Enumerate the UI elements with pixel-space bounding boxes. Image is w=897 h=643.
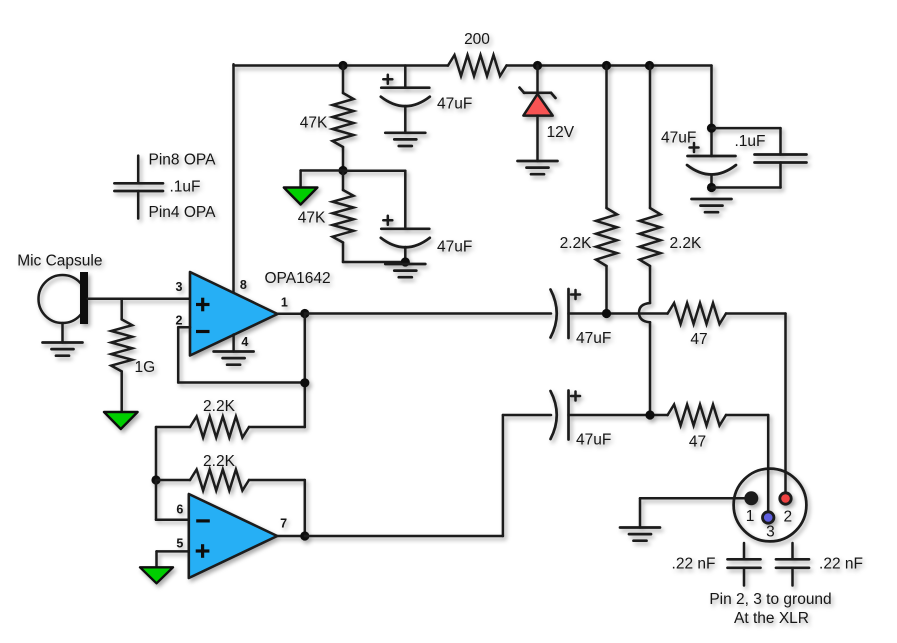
svg-text:47K: 47K [300,115,328,132]
wire 47K R-lower bottom lead [343,243,405,263]
capacitor 47uF C2 [381,216,430,247]
resistor 47 upper [668,303,726,324]
wire U1 output to coupling cap [305,312,551,315]
svg-text:Pin4 OPA: Pin4 OPA [149,204,217,221]
resistor 1G [111,319,132,371]
svg-text:.22 nF: .22 nF [819,556,863,573]
wire mic capsule ground stem [61,323,64,343]
svg-text:Pin8 OPA: Pin8 OPA [149,152,217,169]
XLR connector body [734,469,807,542]
wire C3 bottom lead [710,175,713,188]
capacitor 47uF C4 coupling [551,289,581,338]
zener diode 12V [520,88,556,116]
svg-text:2: 2 [783,508,792,525]
XLR pin 2 [780,493,791,504]
wire 2.2K left bottom lead [605,266,608,314]
svg-text:.22 nF: .22 nF [672,556,716,573]
wire U1 output vertical [304,314,307,428]
wire U2 output to coupling cap [305,415,551,536]
wire 1G bottom lead [120,371,123,411]
wire hop over signal wire [639,303,650,322]
ground 47uF C1 [385,133,425,146]
capacitor .22nF left [728,543,761,586]
svg-text:At the XLR: At the XLR [734,610,809,627]
node U1 feedback junction [300,378,309,387]
resistor 47K upper [333,93,354,147]
wire 1G top lead [120,299,123,320]
svg-text:47: 47 [690,331,707,348]
node C3 top [707,124,716,133]
wire bias cap bottom lead [404,247,407,262]
wire .1uF branch bottom [712,163,781,188]
capacitor 47uF C1 [381,75,430,107]
wire 47uF C1 bottom lead [404,106,407,133]
svg-text:2.2K: 2.2K [203,453,236,470]
mic capsule [39,272,89,324]
ground arrow 1G [104,412,138,429]
wire U1 feedback [178,327,305,382]
node rail-47K junction [338,61,347,70]
wire XLR pin1 to ground [640,498,751,527]
wire bias midpoint to green ground [301,171,343,188]
resistor 2.2K right vertical [640,208,661,266]
svg-text:2.2K: 2.2K [670,235,703,252]
wire top supply rail right segment [507,64,712,67]
wire U2 output [277,535,305,538]
svg-text:.1uF: .1uF [170,179,201,196]
node bias midpoint [338,166,347,175]
wire op-amp U1 pin 4 to ground [232,335,235,352]
wire 2.2K right bottom lead lower [649,322,652,415]
resistor 2.2K feedback upper [190,417,249,438]
ground arrow U2 pin 5 [140,567,173,583]
svg-text:47uF: 47uF [661,130,696,147]
wire 2.2K right bottom lead upper [649,266,652,303]
svg-text:5: 5 [176,537,183,551]
ground zener [518,161,558,174]
svg-text:47uF: 47uF [576,432,611,449]
wire 47K R-upper bottom lead [342,147,345,171]
wire .1uF branch top [712,128,781,154]
wire zener anode lead [536,116,539,161]
resistor 47K lower [333,190,354,243]
svg-text:1: 1 [281,296,288,310]
op-amp U1 OPA1642 first half [190,272,278,356]
node bias cap bottom [401,257,410,266]
wire op-amp U1 pin 8 supply riser [232,64,235,293]
svg-text:1: 1 [746,508,755,525]
ground mic capsule [43,343,83,356]
wire row2 cap to node [569,414,668,417]
node rail junction B [645,61,654,70]
svg-text:1G: 1G [135,359,156,376]
resistor 2.2K feedback lower [190,470,249,491]
ground 47uF C2 [385,264,425,277]
wire row1 cap to node [569,312,668,315]
svg-text:12V: 12V [547,124,575,141]
resistor 200 [448,55,507,76]
XLR pin 3 [763,512,774,523]
node C3 bottom [707,183,716,192]
ground arrow bias midpoint [284,188,318,205]
ground op-amp U1 [214,352,254,365]
capacitor .1uF bypass [755,155,807,163]
wire 2.2K fb upper leads [156,426,305,429]
wire top supply rail left segment [234,64,449,67]
svg-text:3: 3 [766,523,775,540]
node row1 junction [602,309,611,318]
svg-text:47uF: 47uF [576,330,611,347]
svg-text:2: 2 [176,314,183,328]
node rail-zener junction [533,61,542,70]
op-amp U2 OPA1642 second half [189,494,277,578]
wire op-amp U1 pin 2 stub [178,326,190,329]
svg-text:200: 200 [464,31,490,48]
svg-text:6: 6 [176,503,183,517]
wire U2 pin 5 lead [157,551,189,567]
wire rail right corner to C3 [710,66,713,157]
wire fb lower to U2 output [304,480,307,536]
svg-text:47uF: 47uF [437,96,472,113]
capacitor .1uF supply note [114,156,163,219]
resistor 47 lower [668,405,726,426]
node U2 output [300,531,309,540]
svg-text:2.2K: 2.2K [203,398,236,415]
resistor 2.2K left vertical [596,208,617,266]
wire 2.2K fb lower leads [156,479,305,482]
svg-text:47uF: 47uF [437,239,472,256]
XLR pin 1 [744,491,758,505]
wire 47 lower right lead [726,415,768,517]
wire zener cathode lead [536,66,539,94]
svg-text:OPA1642: OPA1642 [265,270,331,287]
svg-text:7: 7 [280,517,287,531]
wire 2.2K right top lead [649,66,652,209]
wire 47K R-lower top lead [342,171,345,191]
capacitor .22nF right [776,543,809,586]
ground XLR pin1 [620,528,660,541]
wire fb left vertical [155,427,158,480]
svg-text:Pin 2, 3 to ground: Pin 2, 3 to ground [709,591,831,608]
svg-text:3: 3 [176,280,183,294]
wire U2 pin 6 lead [156,480,189,520]
svg-text:8: 8 [240,278,247,292]
wire U1 output [278,313,305,316]
wire mic to op-amp input [88,298,190,301]
wire bias cap top lead [343,171,405,229]
wire 47 upper right lead [726,314,786,499]
ground C3 [692,199,732,212]
node fb left junction [151,475,160,484]
svg-text:47K: 47K [298,210,326,227]
wire 2.2K left top lead [605,66,608,209]
wire 47uF C1 top lead [404,66,407,88]
svg-text:.1uF: .1uF [735,133,766,150]
capacitor 47uF C5 coupling [551,391,581,440]
capacitor 47uF C3 [687,143,736,175]
node row2 junction [645,410,654,419]
wire 47K R-upper top lead [342,66,345,94]
svg-text:4: 4 [241,335,248,349]
node U1 output [300,309,309,318]
svg-text:Mic Capsule: Mic Capsule [17,253,102,270]
node rail junction A [602,61,611,70]
svg-text:47: 47 [689,434,706,451]
svg-text:2.2K: 2.2K [560,235,593,252]
